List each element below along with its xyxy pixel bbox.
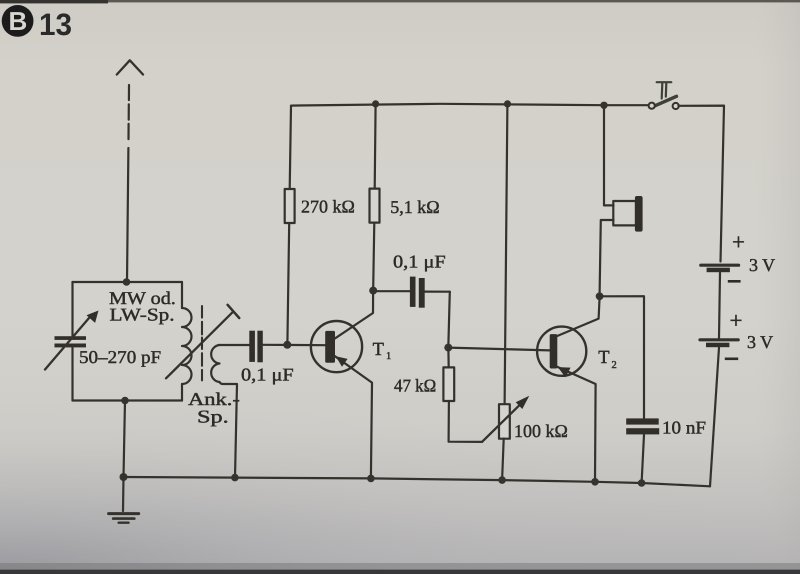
svg-text:270 kΩ: 270 kΩ: [301, 197, 355, 217]
svg-text:T: T: [373, 340, 384, 360]
svg-text:100 kΩ: 100 kΩ: [514, 421, 568, 441]
wire 10nF to bottom rail: [642, 435, 644, 483]
node rail pot: [504, 100, 511, 107]
node rail T2 emitter: [591, 478, 599, 486]
schematic text labels: [79, 197, 775, 442]
label battery minus 2: [725, 357, 738, 360]
svg-text:Sp.: Sp.: [197, 407, 229, 427]
svg-text:13: 13: [39, 7, 72, 42]
wire battery middle: [719, 273, 720, 339]
resistor R2 5,1k body: [370, 189, 380, 223]
node rail pot: [498, 476, 506, 484]
inductor L2 Ank coil: [211, 345, 219, 382]
resistor R3 47k leg top: [447, 350, 450, 367]
antenna dashed shaft: [127, 85, 130, 139]
svg-text:B: B: [9, 6, 28, 36]
svg-text:10 nF: 10 nF: [662, 418, 706, 438]
potentiometer R4 leg top: [505, 104, 508, 404]
transistor T1 collector: [335, 295, 373, 339]
transistor T1 emitter: [335, 356, 372, 478]
svg-text:5,1 kΩ: 5,1 kΩ: [390, 197, 439, 217]
antenna wire: [127, 148, 128, 282]
switch S1 plunger: [657, 82, 672, 98]
resistor R1 270k leg bottom: [287, 223, 289, 343]
svg-text:47 kΩ: 47 kΩ: [394, 376, 436, 396]
capacitor C2 0,1uF input: [249, 331, 262, 363]
potentiometer R4 body: [499, 404, 510, 439]
capacitor C3 0,1uF coupling leads: [377, 290, 410, 292]
variable capacitor C1 plates: [55, 336, 87, 347]
node rail tank: [120, 473, 128, 481]
wire rail right to battery: [679, 106, 725, 262]
potentiometer R4 leg bottom: [502, 439, 504, 480]
top supply rail: [291, 104, 649, 106]
variable capacitor arrow: [45, 315, 92, 370]
node rail 5k1: [372, 100, 379, 107]
ground stem: [122, 477, 125, 511]
battery B1 cell1: [701, 264, 739, 267]
transistor T2 base bar: [550, 334, 558, 368]
tank circuit box top wire: [73, 281, 183, 283]
wire tank left lower: [71, 348, 73, 401]
svg-text:LW-Sp.: LW-Sp.: [110, 305, 175, 325]
transistor T2 circle: [537, 327, 586, 376]
svg-text:+: +: [730, 308, 743, 333]
wire node to T2 base: [448, 348, 550, 351]
earphone bottom lead: [600, 220, 614, 294]
transistor T2 emitter arrow: [558, 367, 571, 377]
transistor T2 collector: [557, 297, 599, 336]
node 47k top: [444, 344, 452, 352]
tank circuit box bottom wire: [73, 399, 183, 401]
bottom ground rail: [124, 477, 711, 486]
earphone magnet bar: [635, 196, 643, 232]
node rail earphone: [600, 102, 607, 109]
node tank top: [123, 278, 131, 286]
wire battery to bottom rail: [710, 348, 719, 487]
coil core dashed line: [201, 306, 203, 380]
node tank bottom: [121, 397, 129, 405]
wire collector node to 10nF: [600, 296, 644, 418]
svg-text:3 V: 3 V: [749, 255, 775, 275]
node rail Ank: [231, 474, 239, 482]
node T1 base: [283, 341, 291, 349]
antenna arrowhead: [117, 60, 143, 74]
wire Ank top lead: [219, 344, 250, 346]
ground symbol: [109, 512, 139, 515]
transistor T1 emitter arrow: [336, 356, 348, 366]
label B13 badge: [2, 5, 72, 42]
resistor R3 47k leg bottom: [449, 401, 482, 442]
resistor R3 47k body: [443, 367, 454, 401]
svg-text:2: 2: [612, 360, 617, 371]
wire C2 to T1 base: [263, 344, 326, 347]
resistor R1 270k leg top: [290, 106, 291, 189]
potentiometer R4 wiper arrow: [482, 402, 523, 442]
wire tank left upper: [71, 282, 73, 336]
battery B1 cell2: [700, 338, 738, 341]
svg-text:+: +: [732, 230, 745, 255]
svg-text:1: 1: [386, 351, 391, 362]
svg-text:50–270 pF: 50–270 pF: [79, 347, 161, 367]
switch S1 lever: [654, 96, 677, 106]
earphone body: [613, 201, 636, 225]
resistor R2 5,1k leg top: [374, 104, 377, 189]
node T2 collector: [596, 292, 604, 300]
node rail 10nF: [638, 479, 646, 487]
inductor adjust arrow: [166, 312, 233, 379]
earphone wire drop: [604, 105, 614, 205]
switch S1 contacts: [649, 103, 655, 109]
wire tank to rail: [124, 401, 126, 478]
node rail T1 emitter: [367, 475, 375, 483]
capacitor C3 plates: [410, 277, 425, 308]
resistor R1 270k body: [285, 189, 295, 223]
transistor T2 emitter: [557, 367, 596, 482]
resistor R2 5,1k leg bottom: [373, 223, 374, 288]
transistor T1 base bar: [325, 331, 335, 363]
label battery minus 1: [728, 280, 741, 283]
inductor L1 (MW/LW coil): [182, 308, 192, 384]
svg-text:0,1 μF: 0,1 μF: [393, 252, 446, 272]
capacitor C4 10nF plates: [626, 418, 659, 434]
wire tank right lower: [181, 384, 183, 401]
svg-text:T: T: [598, 348, 609, 368]
svg-text:0,1 μF: 0,1 μF: [241, 365, 294, 385]
wire tank right upper: [181, 282, 183, 308]
svg-text:3 V: 3 V: [747, 332, 773, 352]
node T1 collector: [369, 287, 377, 295]
transistor T1 circle: [311, 321, 362, 372]
wire Ank bottom lead: [220, 382, 238, 478]
